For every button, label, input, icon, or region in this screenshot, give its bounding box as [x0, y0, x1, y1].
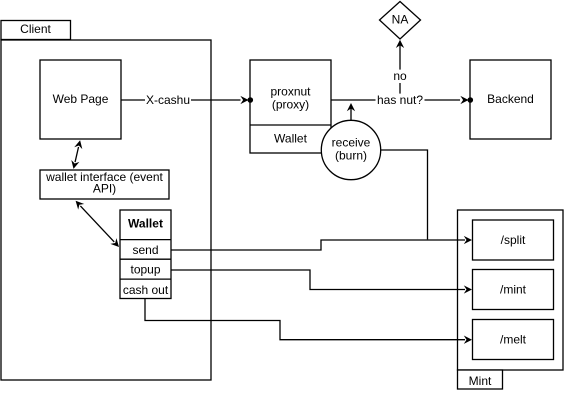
box /mint [473, 270, 554, 310]
wire send to /split [171, 236, 472, 250]
wire cash out to /melt [145, 299, 472, 344]
wire has nut?: proxnut to Backend [331, 96, 473, 104]
label has nut? [376, 93, 425, 107]
wire no: has-nut line up to NA [396, 40, 404, 100]
svg-text:receive: receive [332, 135, 371, 149]
svg-text:NA: NA [392, 13, 409, 27]
wire wallet interface to Wallet list (bidirectional) [76, 201, 119, 247]
svg-text:X-cashu: X-cashu [146, 93, 190, 107]
svg-text:/melt: /melt [500, 333, 527, 347]
svg-text:/split: /split [501, 233, 526, 247]
svg-text:(burn): (burn) [335, 148, 367, 162]
box proxnut (proxy) / Wallet [250, 60, 331, 153]
wire X-cashu: Web Page to proxnut [121, 96, 253, 104]
box /split [473, 220, 554, 260]
svg-text:Mint: Mint [469, 374, 492, 388]
wire receive to has-nut line [347, 103, 355, 121]
wire receive to split line [381, 150, 428, 239]
svg-text:send: send [132, 243, 158, 257]
label no [393, 69, 408, 83]
decision diamond NA [380, 2, 421, 40]
container Mint [458, 210, 564, 389]
svg-text:cash out: cash out [123, 283, 169, 297]
box wallet interface (event API) [40, 170, 169, 199]
box Backend [470, 60, 551, 139]
box Web Page [40, 60, 121, 139]
svg-text:Client: Client [20, 22, 51, 36]
svg-text:has nut?: has nut? [377, 93, 423, 107]
svg-text:Backend: Backend [487, 92, 534, 106]
circle receive (burn) [321, 120, 380, 179]
box /melt [473, 320, 554, 360]
svg-text:no: no [393, 69, 407, 83]
container Client [1, 21, 211, 381]
svg-text:API): API) [93, 182, 116, 196]
list Wallet (send / topup / cash out) [120, 210, 171, 299]
svg-text:Web Page: Web Page [53, 92, 109, 106]
wire Web Page to wallet interface (bidirectional) [71, 140, 82, 169]
label X-cashu [145, 93, 191, 107]
svg-text:Wallet: Wallet [274, 132, 308, 146]
svg-text:(proxy): (proxy) [272, 98, 309, 112]
svg-text:/mint: /mint [500, 283, 527, 297]
svg-text:proxnut: proxnut [270, 85, 311, 99]
svg-text:Wallet: Wallet [128, 217, 163, 231]
wire topup to /mint [171, 270, 472, 294]
svg-text:topup: topup [130, 263, 160, 277]
